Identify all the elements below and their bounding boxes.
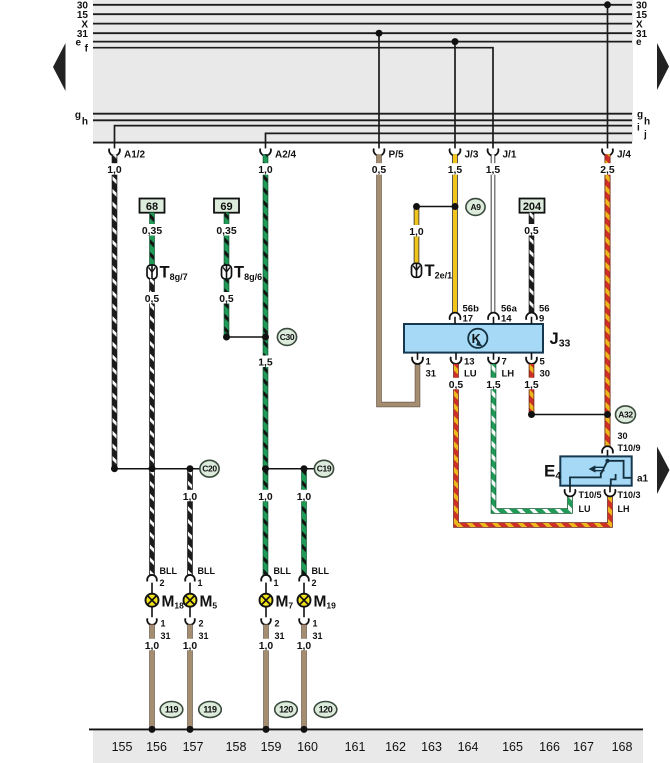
svg-text:1,5: 1,5: [448, 165, 463, 176]
svg-text:1,0: 1,0: [259, 641, 274, 652]
svg-text:1: 1: [426, 356, 432, 367]
value 1,0 on ground wire x=190: [181, 639, 199, 651]
lamp M5: [189, 583, 191, 618]
svg-text:1,0: 1,0: [258, 165, 273, 176]
value 1,5 on J/1 wire: [484, 163, 502, 175]
wire 68 to T8g/7 green/black: [149, 213, 155, 266]
value 1,0 on ground wire x=304: [295, 639, 313, 651]
svg-text:155: 155: [112, 740, 133, 754]
ground node 120 b: [314, 702, 337, 718]
lamp M19: [303, 583, 305, 618]
ground junction dot x=190: [187, 726, 194, 733]
svg-text:J/1: J/1: [503, 150, 517, 161]
junction dot C19 right: [301, 465, 308, 472]
svg-text:LH: LH: [502, 369, 515, 380]
band bottom edge: [93, 142, 632, 144]
svg-text:163: 163: [421, 740, 442, 754]
svg-text:1: 1: [274, 578, 279, 588]
bus line h: [93, 119, 632, 121]
terminal box 68: [140, 199, 165, 213]
connector A2/4 stub: [265, 143, 267, 149]
value 0,5 on 204 wire: [523, 224, 541, 236]
E4 bottom pin T10/3 stub: [609, 486, 611, 493]
svg-text:166: 166: [539, 740, 560, 754]
J33 bottom pin 7 stub: [493, 353, 495, 360]
wire P/5 riser to line 31: [378, 33, 380, 142]
svg-text:J33: J33: [550, 330, 571, 350]
junction dot J/3 on line e: [452, 38, 459, 45]
wire T8g/7 black/white to node C20: [149, 279, 155, 469]
svg-text:0,5: 0,5: [372, 165, 387, 176]
ground node 119 a: [160, 702, 183, 718]
svg-text:h: h: [82, 117, 88, 128]
wire J33 pin7 green/white to E4 T10/5: [494, 364, 571, 511]
svg-text:1,5: 1,5: [258, 358, 273, 369]
svg-text:1: 1: [161, 619, 166, 629]
svg-text:120: 120: [279, 705, 293, 715]
ground node 119 b: [199, 702, 222, 718]
value 0,5 on T8g/7 wire: [143, 292, 161, 304]
connector J/4 stub: [607, 143, 609, 149]
svg-text:9: 9: [539, 313, 544, 324]
svg-text:0,5: 0,5: [449, 380, 464, 391]
J33 top pin 9 socket: [526, 313, 537, 320]
svg-text:T10/5: T10/5: [579, 490, 602, 500]
svg-text:1,0: 1,0: [107, 165, 122, 176]
bus line 15: [93, 13, 632, 15]
wire A1/2 black/white to node C20: [112, 154, 118, 469]
bus line 31: [93, 32, 632, 34]
svg-text:1,0: 1,0: [183, 641, 198, 652]
switch E4 box: [560, 456, 631, 485]
svg-text:5: 5: [540, 356, 546, 367]
svg-text:1,0: 1,0: [183, 492, 198, 503]
E4 top pin T10/9 stub: [607, 450, 609, 457]
J33 top pin 9 stub: [531, 317, 533, 324]
svg-text:f: f: [85, 44, 89, 55]
E4 top pin T10/9 socket: [602, 446, 613, 453]
J33 top pin 17 stub: [454, 317, 456, 324]
terminal box 204: [520, 199, 545, 213]
svg-text:2: 2: [160, 578, 165, 588]
svg-text:e: e: [636, 37, 642, 48]
ground junction dot x=266: [263, 726, 270, 733]
value 1,0 on M7 wire: [257, 490, 275, 502]
svg-text:162: 162: [385, 740, 406, 754]
connector A1/2 stub: [114, 143, 116, 149]
svg-text:0,5: 0,5: [219, 294, 234, 305]
value 1,0 on A1/2 wire: [106, 163, 124, 175]
svg-text:31: 31: [426, 369, 437, 380]
value 1,5 on pin7 wire: [485, 378, 503, 390]
junction dot C30 on A2/4 wire: [262, 334, 269, 341]
svg-text:69: 69: [220, 201, 232, 213]
relay J33 box: [404, 324, 543, 353]
value 1,5 on pin5 wire: [523, 378, 541, 390]
svg-text:LU: LU: [579, 504, 591, 514]
ground node 120 a: [275, 702, 298, 718]
svg-text:0,35: 0,35: [142, 226, 162, 237]
wire J/3 riser to line e: [454, 42, 456, 143]
junction dot C20 mid: [149, 465, 156, 472]
svg-text:T8g/7: T8g/7: [160, 264, 188, 283]
top bus-bar band: [93, 0, 633, 143]
svg-text:J/3: J/3: [465, 150, 479, 161]
connector J/3 socket: [450, 149, 461, 156]
bus line g: [93, 113, 632, 115]
junction dot A9 on J/3 wire: [452, 203, 459, 210]
svg-text:68: 68: [146, 201, 158, 213]
svg-text:156: 156: [146, 740, 167, 754]
svg-text:159: 159: [261, 740, 282, 754]
junction dot C20 right: [187, 465, 194, 472]
svg-text:2: 2: [199, 619, 204, 629]
svg-text:T10/3: T10/3: [618, 490, 641, 500]
svg-text:A9: A9: [470, 202, 481, 212]
node C19 link: [266, 468, 315, 470]
svg-text:165: 165: [502, 740, 523, 754]
ground wire brown at x=152: [149, 625, 155, 730]
ground junction dot x=304: [301, 726, 308, 733]
svg-text:1,5: 1,5: [486, 380, 501, 391]
connector J/3 stub: [454, 143, 456, 149]
svg-text:M19: M19: [314, 594, 337, 611]
J33 bottom pin 5 stub: [531, 353, 533, 360]
svg-text:M7: M7: [276, 594, 294, 611]
J33 bottom pin 13 stub: [455, 353, 457, 360]
svg-text:204: 204: [523, 201, 542, 213]
bus line e: [93, 41, 632, 43]
ground wire brown at x=304: [301, 625, 307, 730]
junction dot J/4 on line 30: [604, 1, 611, 8]
terminal box 69: [214, 199, 239, 213]
svg-text:J/4: J/4: [617, 150, 631, 161]
svg-text:30: 30: [618, 431, 628, 441]
connector A1/2 socket: [109, 149, 120, 156]
bus line X: [93, 23, 632, 25]
wire J/3 yellow to J33 pin 17: [452, 154, 458, 313]
junction dot C30 left: [223, 334, 230, 341]
value 0,5 on P/5 wire: [370, 163, 388, 175]
J33 bottom pin 1 stub: [417, 353, 419, 360]
J33 bottom pin 13 socket: [451, 357, 462, 364]
ground wire brown at x=266: [263, 625, 269, 730]
svg-text:2,5: 2,5: [600, 165, 615, 176]
J33 bottom pin 1 socket: [412, 357, 423, 364]
bus line j with corner down to A2/4: [266, 133, 633, 142]
E4 bottom pin T10/5 socket: [565, 489, 576, 496]
node C30: [277, 329, 296, 346]
svg-text:j: j: [643, 129, 647, 140]
connector T2e/1: [412, 263, 422, 277]
value 1,5 on J/3 wire: [446, 163, 464, 175]
relay J33 K symbol: [468, 329, 487, 348]
svg-text:0,35: 0,35: [216, 226, 236, 237]
node C19: [314, 460, 333, 477]
svg-text:1,5: 1,5: [524, 380, 539, 391]
svg-text:0,5: 0,5: [145, 294, 160, 305]
value 1,0 on M19 wire: [295, 490, 313, 502]
svg-text:BLL: BLL: [312, 566, 330, 576]
svg-text:i: i: [637, 123, 640, 134]
E4 output a1 line: [608, 461, 632, 478]
node C20 link: [115, 468, 201, 470]
value 1,0 on A2/4 wire: [257, 163, 275, 175]
junction dot C20 on A1/2 wire: [111, 465, 118, 472]
svg-text:LU: LU: [464, 369, 477, 380]
svg-text:A1/2: A1/2: [124, 150, 146, 161]
svg-text:LH: LH: [618, 504, 630, 514]
wire J/4 red/yellow to switch E4: [605, 154, 611, 447]
bus line 30: [93, 4, 632, 6]
E4 bottom pin T10/3 socket: [605, 489, 616, 496]
svg-text:167: 167: [573, 740, 594, 754]
wire T8g/6 green/black to node C30: [224, 279, 230, 337]
ground rail: [89, 728, 643, 730]
svg-text:31: 31: [313, 631, 323, 641]
node C30 link: [227, 336, 266, 338]
E4 switch lever: [601, 461, 608, 474]
svg-text:E4: E4: [544, 462, 561, 483]
wire A2/4 green/black down to lamp M7: [263, 154, 269, 575]
value 1,0 on ground wire x=152: [143, 639, 161, 651]
connector P/5 stub: [378, 143, 380, 149]
svg-text:158: 158: [226, 740, 247, 754]
svg-text:0,5: 0,5: [524, 226, 539, 237]
E4 bottom pin T10/5 stub: [569, 486, 571, 493]
svg-text:1,0: 1,0: [145, 641, 160, 652]
svg-text:e: e: [75, 37, 81, 48]
J33 top pin 17 socket: [450, 313, 461, 320]
svg-text:T2e/1: T2e/1: [425, 262, 453, 281]
wire J/1 white to J33 pin 14: [491, 154, 496, 313]
E4 contact to T10/3: [611, 474, 616, 486]
wire C19 to lamp M19 green/black: [301, 469, 307, 576]
E4 actuation arrow: [589, 465, 596, 472]
node A32: [616, 406, 636, 423]
svg-text:168: 168: [612, 740, 633, 754]
bus line f with corner down to J/1: [93, 48, 493, 143]
wire P/5 brown to J33 pin 1: [379, 154, 418, 404]
wire 204 black/white to J33 pin 9: [529, 213, 535, 313]
value 1,0 on ground wire x=266: [257, 639, 275, 651]
value 0,5 on pin13 wire: [447, 378, 465, 390]
wire branch yellow to T2e/1: [414, 207, 420, 264]
svg-text:164: 164: [458, 740, 479, 754]
lamp M18: [151, 583, 153, 618]
svg-text:1: 1: [313, 619, 318, 629]
connector J/1 socket: [488, 149, 499, 156]
junction dot A32 on J/4 wire: [604, 411, 611, 418]
wire J33 pin13 red/yellow to E4 T10/3: [456, 364, 610, 525]
wire J/4 riser to line 30: [607, 5, 609, 143]
value 1,5 below C30: [257, 356, 275, 368]
svg-text:120: 120: [319, 705, 333, 715]
wire C20 to lamp M18 black/white: [149, 469, 155, 576]
wire J33 pin5 red/yellow to node A32: [529, 364, 535, 415]
svg-text:31: 31: [161, 631, 171, 641]
svg-text:M5: M5: [200, 594, 218, 611]
ground junction dot x=152: [149, 726, 156, 733]
svg-text:13: 13: [464, 356, 475, 367]
node A9 link: [417, 206, 456, 208]
wire C20 to lamp M5 black/white: [187, 469, 193, 576]
svg-text:1,0: 1,0: [258, 492, 273, 503]
value 0,5 on T8g/6 wire: [218, 292, 236, 304]
value 1,0 on M5 wire: [181, 490, 199, 502]
svg-text:BLL: BLL: [160, 566, 178, 576]
svg-text:C20: C20: [202, 464, 217, 474]
J33 bottom pin 7 socket: [488, 357, 499, 364]
bus line i with corner down to A1/2: [115, 126, 633, 143]
ground wire brown at x=190: [187, 625, 193, 730]
connector J/1 stub: [492, 143, 494, 149]
svg-text:g: g: [75, 110, 81, 121]
connector P/5 socket: [374, 149, 385, 156]
svg-text:160: 160: [297, 740, 318, 754]
svg-text:30: 30: [540, 369, 551, 380]
track numbers 155-168: [112, 740, 633, 754]
J33 bottom pin 5 socket: [526, 357, 537, 364]
svg-text:A32: A32: [618, 410, 633, 420]
E4 switch contact dot: [605, 459, 609, 463]
svg-text:31: 31: [199, 631, 209, 641]
svg-text:1,5: 1,5: [486, 165, 501, 176]
svg-text:7: 7: [502, 356, 507, 367]
J33 top pin 14 stub: [493, 317, 495, 324]
value 0,35 on 69 wire: [216, 224, 237, 236]
junction dot A32 left: [528, 411, 535, 418]
value 1,0 on T2e/1 branch: [408, 225, 426, 237]
svg-text:h: h: [644, 116, 650, 127]
inline connector T8g/7: [147, 265, 157, 279]
value 2,5 on J/4 wire: [599, 163, 617, 175]
bottom track band: [93, 730, 643, 763]
svg-text:C19: C19: [317, 464, 332, 474]
svg-text:17: 17: [463, 313, 474, 324]
svg-text:A2/4: A2/4: [275, 150, 297, 161]
svg-text:g: g: [637, 110, 643, 121]
svg-text:1: 1: [198, 578, 203, 588]
page-turn arrow right at E4: [657, 447, 670, 495]
svg-text:1,0: 1,0: [297, 641, 312, 652]
svg-text:119: 119: [165, 705, 179, 715]
node A32 link: [532, 414, 608, 416]
svg-text:119: 119: [203, 705, 217, 715]
svg-text:2: 2: [312, 578, 317, 588]
page-turn arrow left: [53, 43, 66, 91]
svg-text:C30: C30: [280, 332, 295, 342]
junction dot C19 on A2/4 wire: [262, 465, 269, 472]
svg-text:P/5: P/5: [389, 150, 404, 161]
svg-text:BLL: BLL: [274, 566, 292, 576]
svg-text:BLL: BLL: [198, 566, 216, 576]
svg-text:161: 161: [345, 740, 366, 754]
lamp M7: [265, 583, 267, 618]
svg-text:T8g/6: T8g/6: [234, 264, 262, 283]
value 0,35 on 68 wire: [142, 224, 163, 236]
junction dot P/5 on line 31: [376, 30, 383, 37]
wire 69 to T8g/6 green/black: [224, 213, 230, 266]
inline connector T8g/6: [222, 265, 232, 279]
page-turn arrow right top: [657, 43, 669, 90]
svg-text:31: 31: [275, 631, 285, 641]
connector A2/4 socket: [260, 149, 271, 156]
svg-text:a1: a1: [637, 473, 649, 484]
J33 top pin 14 socket: [488, 313, 499, 320]
E4 contact to T10/5: [570, 472, 601, 486]
svg-text:1,0: 1,0: [297, 492, 312, 503]
svg-text:2: 2: [275, 619, 280, 629]
connector J/4 socket: [602, 149, 613, 156]
node A9: [466, 199, 485, 216]
node C20: [200, 460, 219, 477]
svg-text:1,0: 1,0: [409, 227, 424, 238]
svg-text:M18: M18: [162, 594, 185, 611]
junction dot A9 left: [413, 203, 420, 210]
svg-text:157: 157: [183, 740, 204, 754]
svg-text:T10/9: T10/9: [618, 443, 641, 453]
svg-text:14: 14: [501, 313, 512, 324]
